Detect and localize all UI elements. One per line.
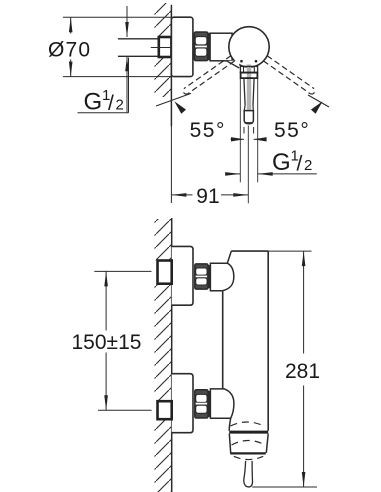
upper union nut <box>195 264 208 289</box>
svg-text:2: 2 <box>116 97 124 114</box>
svg-text:150±15: 150±15 <box>72 331 142 354</box>
escutcheon flange (top view) <box>171 17 193 76</box>
lower union tailpiece <box>210 389 234 418</box>
lower pipe fitting in wall <box>158 401 172 419</box>
handle screws dots <box>240 60 243 63</box>
lower union nut <box>195 390 208 418</box>
mixer body circle (top view) <box>229 27 269 67</box>
lever handle shaft <box>244 78 254 124</box>
pipe fitting in wall (top view) <box>159 37 172 57</box>
hidden circle dashed arc above outlet ring <box>231 422 264 426</box>
label G1/2 (top left) <box>78 58 129 116</box>
svg-text:2: 2 <box>304 157 312 174</box>
outlet thread extension lines (start at hub) <box>239 79 241 183</box>
svg-text:Ø70: Ø70 <box>48 38 91 61</box>
water outlet nozzle drop <box>244 461 253 487</box>
upper pipe fitting in wall <box>158 261 172 284</box>
mousseur cap block <box>229 434 268 454</box>
union nut right face (top view) <box>208 33 210 60</box>
dimension G1/2 (supply pipe) arrows <box>125 6 129 113</box>
union nut (top view) <box>194 32 208 61</box>
svg-text:91: 91 <box>196 185 219 208</box>
cartridge-to-body wedge below circle <box>227 61 240 68</box>
cartridge housing (top view) <box>210 33 232 61</box>
svg-text:/: / <box>297 152 303 175</box>
lever handle hub <box>240 66 257 78</box>
dimension G1/2 outlet arrows <box>225 172 317 176</box>
left 55 deg leg and arrow <box>156 93 191 113</box>
transition from union to outlet <box>229 418 231 431</box>
dimension 91 <box>171 185 248 208</box>
lower union nut right face <box>208 391 210 417</box>
svg-text:/: / <box>108 92 114 115</box>
svg-text:G: G <box>272 149 291 176</box>
hidden arc below cap <box>234 456 263 459</box>
upper union tailpiece <box>210 263 233 291</box>
extension lines for diameter 70 <box>63 16 171 18</box>
extension line lower union centre <box>98 409 152 411</box>
wall face line (top view) <box>170 5 172 127</box>
wall face line (front view) <box>171 218 173 492</box>
dashed lever swung right 55 deg <box>263 56 314 94</box>
outlet ring (bold band) <box>229 431 268 434</box>
svg-text:281: 281 <box>285 360 320 383</box>
right 55 deg leg and arrow <box>308 95 329 114</box>
svg-text:55°: 55° <box>274 119 310 142</box>
wall extension line down to 91 dimension <box>170 126 172 203</box>
dashed lever swung left 55 deg <box>184 56 235 94</box>
mixer body (front view) <box>223 251 269 431</box>
upper escutcheon <box>172 246 193 305</box>
centre line of outlet <box>247 126 249 204</box>
lever tip extension lines <box>243 127 245 134</box>
wall (front view) hatching <box>155 219 172 492</box>
dimension diameter 70 <box>48 17 91 76</box>
supply pipe (top view) <box>118 38 159 40</box>
dimension 150 plus-minus 15 <box>72 271 142 410</box>
svg-text:G: G <box>84 89 103 116</box>
dimension 281 <box>252 251 320 487</box>
55 degree dimension inner arrows <box>231 137 267 141</box>
wall (top view) hatching <box>155 3 172 97</box>
hidden arc inside cap <box>232 441 266 446</box>
lower escutcheon <box>172 374 193 433</box>
svg-text:55°: 55° <box>190 119 226 142</box>
upper union nut right face <box>208 265 210 288</box>
pipe centre line (top view) <box>151 47 171 49</box>
lever handle grey core <box>247 65 251 122</box>
extension line upper union centre <box>94 270 151 272</box>
label G1/2 (outlet) <box>272 147 312 176</box>
